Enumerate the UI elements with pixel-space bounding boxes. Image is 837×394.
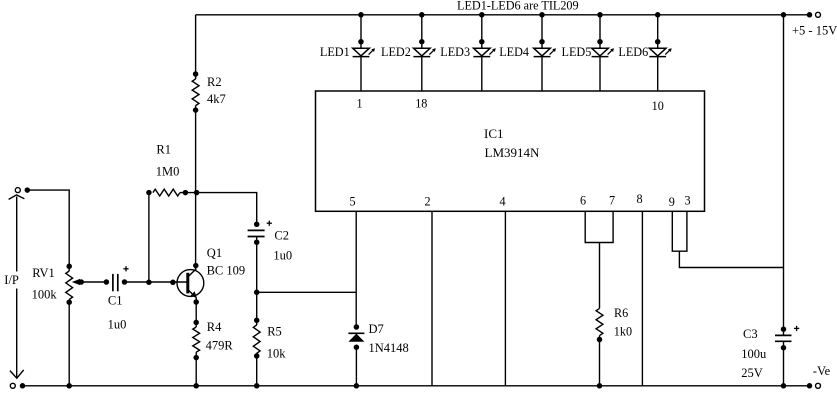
- wire IC pin8 to ground rail: [641, 211, 643, 385]
- svg-text:9: 9: [669, 195, 675, 209]
- svg-text:IC1: IC1: [484, 126, 504, 141]
- wire D7 to ground rail: [355, 347, 357, 386]
- capacitor C1: [113, 274, 127, 291]
- svg-text:10k: 10k: [267, 347, 287, 361]
- wire C2 bottom to R5/pin5 node: [256, 237, 258, 293]
- LED D6 (LED6): [649, 12, 671, 91]
- svg-text:479R: 479R: [206, 339, 234, 353]
- label Q1 BC 109: [207, 246, 246, 278]
- svg-text:R1: R1: [156, 142, 171, 156]
- svg-text:1: 1: [356, 97, 362, 111]
- svg-text:C2: C2: [274, 229, 289, 243]
- svg-text:C1: C1: [108, 294, 123, 308]
- wire R5 to ground rail: [256, 356, 258, 386]
- wire bottom -Ve ground rail: [23, 385, 810, 387]
- node C2/R5 junction: [254, 290, 260, 296]
- LED D2 (LED2): [413, 12, 435, 91]
- svg-text:4k7: 4k7: [207, 92, 226, 106]
- label C3 value 100u 25V: [741, 327, 767, 380]
- wire IC pin2 to ground rail: [431, 211, 433, 385]
- label C1 plus polarity: [123, 268, 128, 270]
- svg-text:18: 18: [415, 97, 427, 111]
- svg-text:LED6: LED6: [618, 45, 648, 59]
- svg-text:5: 5: [349, 195, 355, 209]
- wire top +V supply rail: [196, 14, 810, 16]
- capacitor C3: [775, 326, 792, 350]
- svg-text:BC 109: BC 109: [207, 264, 246, 278]
- wire IC pin4 to ground rail: [504, 211, 506, 385]
- resistor R2: [192, 71, 199, 113]
- wire IC pin5 down: [355, 211, 357, 327]
- label C3 plus polarity: [794, 327, 799, 329]
- wire +V column to C3: [783, 15, 785, 336]
- svg-text:1u0: 1u0: [273, 248, 292, 262]
- svg-text:LED2: LED2: [381, 45, 411, 59]
- wire pins9/3 to +V column: [679, 251, 783, 267]
- resistor R1: [146, 189, 199, 196]
- svg-text:D7: D7: [369, 322, 384, 336]
- svg-text:100u: 100u: [741, 347, 767, 361]
- wire junction to pin5 column: [257, 291, 357, 293]
- svg-text:100k: 100k: [32, 288, 58, 302]
- svg-text:R4: R4: [207, 320, 222, 334]
- wire Q1 emitter to R4: [193, 298, 199, 323]
- svg-text:-Ve: -Ve: [813, 364, 831, 378]
- label R4 value 479R: [206, 320, 234, 353]
- terminal -Ve open circle: [816, 383, 821, 388]
- wire IC pins 9 and 3 strap: [672, 211, 687, 251]
- wire C3 to ground rail: [783, 341, 785, 386]
- svg-text:3: 3: [684, 193, 690, 207]
- label R1 value 1M0: [156, 142, 180, 178]
- label R5 value 10k: [267, 325, 287, 361]
- svg-text:LED1-LED6 are TIL209: LED1-LED6 are TIL209: [457, 0, 579, 13]
- svg-text:1k0: 1k0: [614, 325, 632, 339]
- terminal +V supply open circle: [816, 12, 821, 17]
- wire RV1 bottom to ground rail: [68, 302, 70, 386]
- wire R2 to R1 node: [195, 110, 197, 193]
- label C1 value 1u0: [108, 294, 127, 332]
- wire input to RV1 top: [27, 190, 69, 266]
- wire IC pins 6 and 7 strap: [585, 211, 613, 242]
- svg-text:1N4148: 1N4148: [369, 341, 409, 355]
- diode D7 1N4148: [348, 324, 364, 350]
- I/P span arrow: [9, 195, 25, 378]
- svg-text:+5 - 15V: +5 - 15V: [792, 24, 837, 38]
- wire R1 node to C2: [197, 193, 257, 225]
- node input top dot: [25, 187, 31, 193]
- node ground rail dots: [20, 383, 813, 389]
- svg-text:R2: R2: [207, 75, 222, 89]
- node top rail terminal dot: [807, 12, 813, 17]
- LED D4 (LED4): [534, 12, 556, 91]
- RV1 wiper arrow: [72, 279, 109, 285]
- wire R1 node to Q1 collector: [193, 193, 199, 270]
- svg-text:25V: 25V: [741, 366, 763, 380]
- op-amp IC1 LM3914N box: [316, 91, 705, 211]
- svg-text:LED3: LED3: [440, 45, 470, 59]
- wire R6 to ground rail: [599, 340, 601, 386]
- LED D1 (LED1): [353, 12, 375, 91]
- wire C1 to Q1 base: [125, 279, 188, 285]
- resistor R6: [596, 308, 603, 342]
- wire R1 left leg down to base node: [148, 193, 150, 283]
- resistor R4: [193, 320, 200, 361]
- label RV1 value 100k: [32, 266, 58, 302]
- label R2 value 4k7: [207, 75, 226, 106]
- capacitor C2: [248, 222, 265, 245]
- wire R4 to ground rail: [195, 358, 197, 386]
- LED D5 (LED5): [592, 12, 614, 91]
- wire top rail left drop to R2: [195, 15, 197, 74]
- svg-text:Q1: Q1: [207, 246, 222, 260]
- svg-text:7: 7: [609, 194, 615, 208]
- svg-text:1M0: 1M0: [156, 165, 180, 179]
- label C2 value 1u0: [273, 229, 292, 263]
- potentiometer RV1: [66, 264, 73, 305]
- svg-text:R6: R6: [614, 306, 628, 320]
- svg-text:RV1: RV1: [32, 266, 55, 280]
- label R6 value 1k0: [614, 306, 632, 339]
- svg-text:1u0: 1u0: [108, 318, 127, 332]
- terminal input bottom open circle: [10, 383, 15, 388]
- svg-text:LED5: LED5: [562, 45, 592, 59]
- resistor R5: [253, 292, 260, 358]
- node top rail / C3 column junction: [781, 12, 787, 17]
- label C2 plus polarity: [267, 222, 272, 224]
- svg-text:R5: R5: [267, 325, 282, 339]
- svg-text:4: 4: [499, 195, 505, 209]
- LED D3 (LED3): [473, 12, 495, 91]
- svg-text:8: 8: [636, 192, 642, 206]
- svg-text:I/P: I/P: [4, 273, 19, 287]
- terminal input top open circle: [15, 188, 20, 193]
- svg-text:LM3914N: LM3914N: [485, 145, 541, 160]
- svg-text:10: 10: [652, 99, 664, 113]
- svg-text:LED1: LED1: [320, 45, 350, 59]
- svg-text:6: 6: [580, 194, 586, 208]
- svg-text:2: 2: [424, 195, 430, 209]
- svg-text:C3: C3: [743, 327, 758, 341]
- wire pins6/7 to R6: [599, 243, 601, 309]
- svg-text:LED4: LED4: [499, 45, 529, 59]
- transistor Q1 BC109: [177, 269, 204, 298]
